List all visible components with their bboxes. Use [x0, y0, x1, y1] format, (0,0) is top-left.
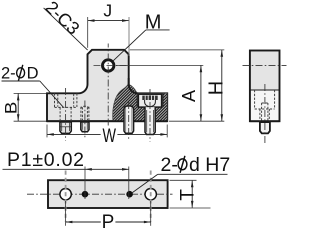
dim P — [66, 221, 101, 223]
dim W — [47, 133, 101, 135]
screw U1 tip below base — [60, 122, 71, 133]
dim H — [221, 50, 223, 121]
screw U2 socket — [142, 96, 157, 100]
centerline vertical main — [107, 44, 109, 126]
svg-text:H: H — [205, 81, 227, 95]
pin hole right (dot) — [126, 191, 133, 198]
svg-text:A: A — [179, 90, 199, 102]
side hidden counterbore — [254, 90, 256, 109]
centerline screw U2 — [149, 89, 151, 142]
front view part body — [47, 50, 167, 121]
svg-text:T: T — [177, 189, 198, 201]
screw U1 shaft (hidden) — [59, 107, 61, 121]
dowel pin P1 (hidden) — [80, 107, 82, 121]
hole phiD left — [60, 189, 71, 200]
section hatch blob — [113, 84, 168, 121]
centerline pin P2 — [128, 102, 130, 140]
dim B — [17, 94, 19, 121]
plate centerline — [27, 193, 173, 195]
dim J ext lines — [87, 17, 89, 48]
dim J line — [88, 20, 129, 22]
svg-text:2-: 2- — [161, 154, 178, 176]
pin hole left (dot) — [82, 191, 89, 198]
screw U2 head (section) — [138, 94, 161, 107]
dim T — [191, 181, 193, 208]
svg-text:P: P — [102, 212, 115, 233]
side hidden through hole — [259, 109, 261, 121]
dowel pin P2 (section, white) — [124, 106, 134, 133]
hole phiD right — [145, 189, 156, 200]
dowel pin P1 tip below base — [81, 122, 89, 132]
svg-text:P1±0.02: P1±0.02 — [7, 149, 85, 171]
svg-text:B: B — [3, 102, 21, 115]
svg-text:D: D — [27, 64, 39, 82]
tapped hole M (ring) — [103, 60, 114, 71]
side view body — [250, 51, 280, 122]
svg-text:2-: 2- — [1, 64, 16, 82]
base bottom edge re-stroke — [47, 120, 167, 122]
svg-text:d H7: d H7 — [189, 154, 230, 176]
bottom view plate — [48, 180, 168, 208]
counterbore left (hidden) — [54, 93, 56, 107]
svg-text:J: J — [103, 1, 112, 21]
centerline hole horizontal — [94, 65, 128, 67]
side centerline horizontal — [243, 65, 287, 67]
centerline screw U1 — [65, 88, 67, 141]
svg-text:W: W — [102, 126, 116, 147]
side pin tip — [260, 122, 270, 133]
projection line right — [150, 171, 152, 222]
projection line left — [65, 171, 67, 222]
screw U2 shank — [145, 107, 155, 134]
svg-text:2-C3: 2-C3 — [41, 0, 83, 39]
side centerline vertical — [264, 84, 266, 144]
dim A — [200, 65, 202, 121]
centerline pin P1 — [84, 101, 86, 140]
counterbore opening right (sectioned) — [137, 94, 162, 108]
